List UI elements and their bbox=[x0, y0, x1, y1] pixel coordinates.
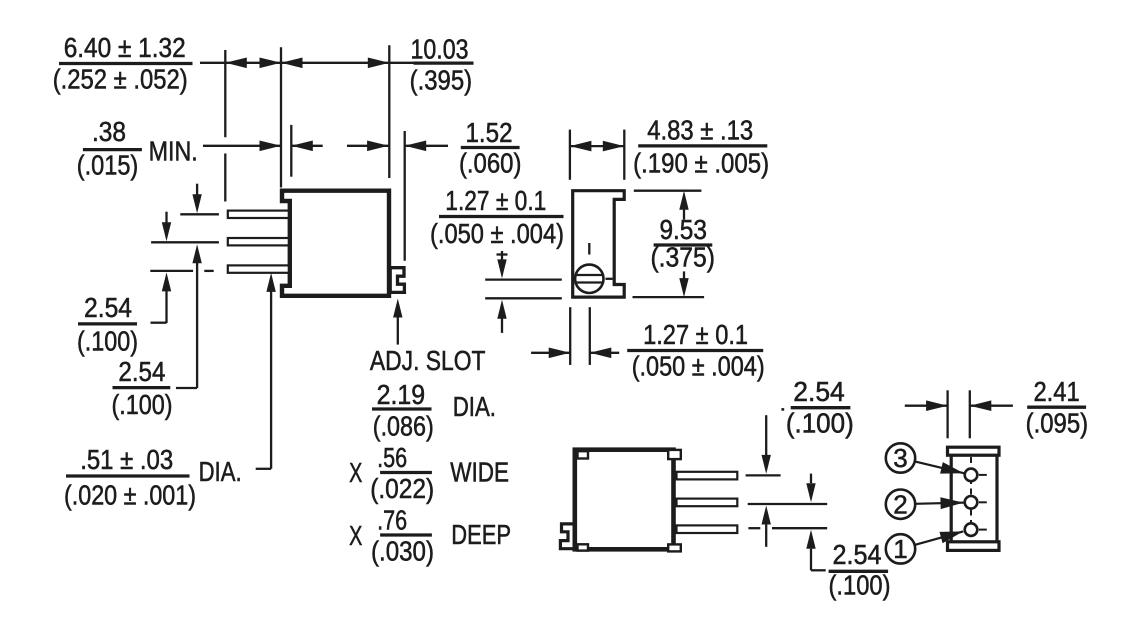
svg-text:(.060): (.060) bbox=[459, 147, 522, 178]
svg-text:.38: .38 bbox=[92, 116, 126, 147]
svg-text:DIA.: DIA. bbox=[453, 391, 496, 422]
svg-text:2.54: 2.54 bbox=[833, 539, 882, 570]
svg-text:ADJ. SLOT: ADJ. SLOT bbox=[370, 345, 486, 376]
svg-text:.51 ± .03: .51 ± .03 bbox=[80, 444, 173, 475]
svg-text:MIN.: MIN. bbox=[149, 135, 198, 166]
svg-text:1.27 ± 0.1: 1.27 ± 0.1 bbox=[445, 185, 546, 216]
svg-text:(.100): (.100) bbox=[77, 325, 138, 356]
svg-text:(.050 ± .004): (.050 ± .004) bbox=[430, 218, 564, 249]
svg-text:DIA.: DIA. bbox=[199, 456, 242, 487]
svg-text:2.19: 2.19 bbox=[377, 379, 426, 410]
svg-text:.76: .76 bbox=[377, 504, 407, 535]
svg-text:(.030): (.030) bbox=[371, 536, 434, 567]
svg-text:(.020 ± .001): (.020 ± .001) bbox=[64, 479, 196, 510]
svg-text:(.100): (.100) bbox=[829, 570, 891, 601]
svg-text:1.52: 1.52 bbox=[466, 117, 513, 148]
svg-text:(.100): (.100) bbox=[112, 389, 173, 420]
svg-text:(.095): (.095) bbox=[1026, 407, 1089, 438]
svg-text:2.54: 2.54 bbox=[793, 376, 845, 407]
svg-text:2.54: 2.54 bbox=[84, 292, 132, 323]
svg-text:.56: .56 bbox=[377, 442, 407, 473]
svg-text:(.375): (.375) bbox=[650, 241, 715, 272]
svg-text:(.015): (.015) bbox=[77, 150, 139, 181]
svg-text:6.40 ± 1.32: 6.40 ± 1.32 bbox=[64, 32, 186, 63]
svg-text:4.83 ± .13: 4.83 ± .13 bbox=[647, 115, 753, 146]
svg-text:X: X bbox=[349, 520, 362, 551]
svg-text:(.252 ± .052): (.252 ± .052) bbox=[53, 64, 188, 95]
svg-text:(.086): (.086) bbox=[373, 410, 434, 441]
svg-text:1: 1 bbox=[893, 534, 907, 564]
svg-text:DEEP: DEEP bbox=[451, 519, 511, 550]
svg-text:(.395): (.395) bbox=[410, 65, 473, 96]
svg-text:2: 2 bbox=[893, 489, 907, 519]
svg-text:WIDE: WIDE bbox=[450, 457, 509, 488]
svg-text:3: 3 bbox=[893, 443, 907, 473]
svg-text:2.41: 2.41 bbox=[1033, 376, 1079, 407]
svg-text:9.53: 9.53 bbox=[659, 214, 707, 245]
svg-text:(.190 ± .005): (.190 ± .005) bbox=[633, 148, 769, 179]
svg-text:1.27 ± 0.1: 1.27 ± 0.1 bbox=[643, 319, 748, 350]
svg-text:2.54: 2.54 bbox=[118, 356, 165, 387]
svg-text:X: X bbox=[349, 457, 362, 488]
svg-text:(.050 ± .004): (.050 ± .004) bbox=[632, 351, 765, 382]
svg-text:(.100): (.100) bbox=[786, 408, 854, 439]
svg-text:(.022): (.022) bbox=[370, 473, 434, 504]
svg-text:10.03: 10.03 bbox=[411, 34, 469, 65]
